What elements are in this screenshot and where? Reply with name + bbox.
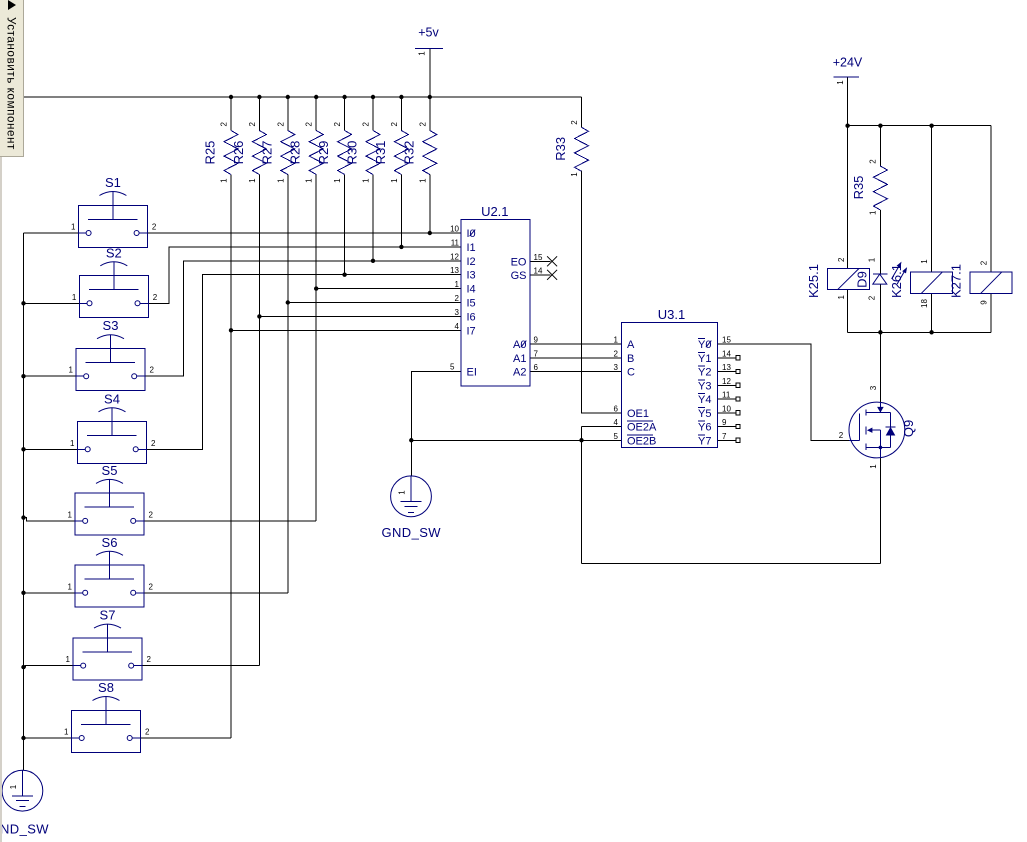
svg-text:1: 1 [276, 178, 285, 183]
switch S8 [72, 697, 141, 753]
svg-text:GND_SW: GND_SW [0, 822, 49, 837]
junction I6/R26 [257, 314, 261, 318]
svg-text:GND_SW: GND_SW [382, 525, 442, 540]
switch S3 [76, 335, 145, 391]
svg-text:R35: R35 [851, 176, 866, 200]
wire Q9 drain [879, 332, 881, 402]
ground GND_SW [391, 476, 432, 517]
wire +24V rail [848, 125, 991, 127]
junction rail/R35 [878, 124, 882, 128]
tab text [5, 17, 18, 150]
wire Y3 stub [717, 384, 735, 386]
svg-text:15: 15 [534, 253, 543, 262]
wire I7 [231, 329, 461, 331]
svg-text:1: 1 [868, 257, 877, 262]
wire R32 column [429, 175, 431, 234]
wire Y1 stub [717, 357, 735, 359]
wire Y6 stub [717, 426, 735, 428]
resistor R25 [224, 131, 238, 175]
svg-text:S5: S5 [102, 463, 118, 478]
svg-text:GS: GS [511, 270, 527, 282]
svg-text:Y0: Y0 [698, 339, 711, 351]
svg-text:2: 2 [362, 122, 371, 127]
svg-text:+5v: +5v [418, 26, 439, 40]
junction rail/R26 [257, 95, 261, 99]
wire R27 top stub [287, 97, 289, 131]
svg-text:12: 12 [450, 252, 459, 261]
svg-text:1: 1 [390, 178, 399, 183]
wire OE2A [582, 426, 622, 428]
svg-text:9: 9 [722, 418, 727, 427]
switch S2 [79, 262, 148, 318]
wire S8 pin2 [141, 737, 232, 739]
wire I6 [259, 315, 460, 317]
svg-text:7: 7 [534, 349, 539, 358]
svg-text:2: 2 [152, 223, 157, 232]
svg-text:14: 14 [534, 266, 543, 275]
svg-text:2: 2 [150, 366, 155, 375]
svg-text:S7: S7 [100, 608, 116, 623]
left canvas edge [0, 156, 2, 842]
svg-text:10: 10 [722, 404, 731, 413]
svg-text:OE1: OE1 [627, 408, 649, 420]
svg-text:K27.1: K27.1 [949, 264, 964, 298]
svg-text:2: 2 [220, 122, 229, 127]
wire OE2B [582, 439, 622, 441]
junction rail/R25 [229, 95, 233, 99]
junction I5/R27 [286, 300, 290, 304]
svg-text:12: 12 [722, 377, 731, 386]
wire R33 top stub [581, 97, 583, 127]
svg-text:2: 2 [837, 257, 846, 262]
svg-text:11: 11 [451, 238, 460, 247]
junction I7/R25 [229, 328, 233, 332]
wire A2-C [530, 371, 621, 373]
svg-text:1: 1 [362, 178, 371, 183]
wire Y0-gate [717, 344, 849, 441]
svg-text:2: 2 [145, 728, 150, 737]
wire S6 pin2 [144, 592, 288, 594]
switch S6 [75, 551, 144, 607]
svg-text:Y6: Y6 [698, 422, 711, 434]
svg-text:K25.1: K25.1 [806, 264, 821, 298]
svg-text:1: 1 [418, 51, 427, 56]
junction I3/R29 [342, 273, 346, 277]
resistor R27 [281, 131, 295, 175]
wire K26.1 top [931, 126, 933, 273]
diode D9 (LED) [873, 262, 907, 285]
svg-text:1: 1 [68, 582, 73, 591]
wire R31 column [400, 175, 402, 247]
no-connect square Y2 [736, 369, 740, 373]
switch S1 [78, 192, 147, 248]
junction I0/R32 [428, 231, 432, 235]
switch S5 [75, 479, 144, 535]
wire R32 top stub [429, 97, 431, 131]
wire S6 pin1 [24, 592, 76, 594]
svg-text:1: 1 [69, 366, 74, 375]
wire R29 column [344, 175, 346, 275]
op-amp U2.1 body [461, 219, 530, 386]
svg-text:S4: S4 [104, 391, 120, 406]
junction rail/R28 [314, 95, 318, 99]
resistor R33 [575, 127, 589, 171]
wire R28 column [315, 175, 317, 521]
resistor R29 [338, 131, 352, 175]
svg-text:5: 5 [614, 432, 619, 441]
svg-text:C: C [627, 367, 635, 379]
wire OE2 vertical [581, 427, 583, 564]
svg-text:EI: EI [467, 367, 477, 379]
resistor R35 [873, 166, 887, 210]
wire S3 pin1 [24, 375, 77, 377]
wire S1 pin1 [24, 232, 79, 234]
svg-text:Y1: Y1 [698, 353, 711, 365]
svg-text:OE2A: OE2A [627, 422, 657, 434]
svg-text:13: 13 [450, 266, 459, 275]
wire +24V drop [847, 77, 849, 126]
switch S7 [73, 624, 142, 680]
svg-text:1: 1 [66, 655, 71, 664]
slash of zero in I0 [470, 230, 476, 237]
wire +5v drop [429, 48, 431, 97]
wire S5 pin2 [144, 520, 316, 522]
svg-text:I7: I7 [467, 325, 476, 337]
wire S3-I2 [145, 261, 461, 376]
wire source return [582, 562, 881, 564]
op-amp U3.1 body [621, 323, 717, 448]
slash of zero in A0 [521, 341, 526, 348]
svg-text:1: 1 [398, 490, 407, 495]
svg-text:2: 2 [149, 510, 154, 519]
junction I2/R30 [371, 259, 375, 263]
wire S5 pin1 [24, 518, 76, 521]
junction rail/R31 [399, 95, 403, 99]
svg-text:R32: R32 [401, 141, 416, 165]
svg-text:OE2B: OE2B [627, 435, 656, 447]
wire R35 top stub [879, 126, 881, 166]
svg-text:7: 7 [722, 432, 727, 441]
svg-text:Y3: Y3 [698, 380, 711, 392]
svg-text:1: 1 [71, 223, 76, 232]
junction bottom/D9-drain [878, 330, 882, 334]
svg-text:R27: R27 [259, 141, 274, 165]
wire R29 top stub [344, 97, 346, 131]
no-connect square Y5 [736, 411, 740, 415]
no-connect square Y4 [736, 397, 740, 401]
wire R26 column [258, 175, 260, 666]
junction bus/S5 [21, 515, 25, 519]
svg-text:2: 2 [455, 294, 460, 303]
no-connect square Y3 [736, 383, 740, 387]
relay coil K25.1 [827, 268, 869, 289]
svg-text:2: 2 [333, 122, 342, 127]
junction rail/K25 [845, 124, 849, 128]
svg-text:D9: D9 [855, 271, 870, 288]
svg-text:R29: R29 [316, 141, 331, 165]
svg-text:1: 1 [836, 80, 845, 85]
svg-text:2: 2 [839, 431, 844, 440]
wire R33-OE1 [582, 170, 622, 412]
wire S7 pin1 [24, 666, 74, 668]
wire R25 top stub [230, 97, 232, 131]
svg-text:Q9: Q9 [901, 420, 916, 437]
svg-text:2: 2 [390, 122, 399, 127]
svg-text:A0: A0 [513, 339, 526, 351]
power +24V [833, 76, 859, 78]
wire R30 column [372, 175, 374, 261]
junction bus/S4 [21, 447, 25, 451]
svg-text:1: 1 [570, 172, 579, 177]
svg-text:Y5: Y5 [698, 408, 711, 420]
wire Y7 stub [717, 439, 735, 441]
junction rail/R32 [428, 95, 432, 99]
tab arrow icon [8, 0, 16, 10]
svg-text:6: 6 [534, 363, 539, 372]
svg-text:1: 1 [248, 178, 257, 183]
wire K27.1 top [990, 126, 992, 273]
wire R27 column [287, 175, 289, 593]
svg-text:2: 2 [151, 439, 156, 448]
no-connect square Y6 [736, 424, 740, 428]
svg-text:S8: S8 [98, 680, 114, 695]
svg-text:2: 2 [153, 293, 158, 302]
wire left ground bus [23, 233, 25, 770]
resistor R32 [423, 131, 437, 175]
junction I4/R28 [314, 286, 318, 290]
wire EI [411, 372, 461, 441]
svg-text:S2: S2 [106, 245, 122, 260]
junction rail/R27 [286, 95, 290, 99]
svg-text:1: 1 [837, 295, 846, 300]
junction bus/S7 [21, 665, 25, 669]
junction OE2 [579, 438, 583, 442]
svg-text:R33: R33 [553, 137, 568, 161]
svg-text:9: 9 [979, 300, 988, 305]
wire GND link [411, 439, 581, 441]
svg-text:1: 1 [418, 178, 427, 183]
wire R25 column [230, 175, 232, 739]
svg-text:2: 2 [868, 295, 877, 300]
svg-text:1: 1 [68, 510, 73, 519]
svg-text:Y2: Y2 [698, 367, 711, 379]
junction I1/R31 [399, 245, 403, 249]
svg-text:1: 1 [70, 439, 75, 448]
wire I4 [316, 288, 461, 290]
svg-text:Y7: Y7 [698, 435, 711, 447]
svg-text:11: 11 [722, 391, 731, 400]
svg-text:R26: R26 [231, 141, 246, 165]
svg-text:Y4: Y4 [698, 394, 711, 406]
svg-text:2: 2 [418, 122, 427, 127]
relay coil K26.1 [911, 272, 953, 294]
wire R28 top stub [315, 97, 317, 131]
svg-text:6: 6 [614, 404, 619, 413]
wire EO stub [530, 260, 550, 262]
relay coil K27.1 [970, 272, 1012, 294]
wire K25.1 bottom [847, 289, 849, 332]
svg-text:15: 15 [722, 336, 731, 345]
switch S4 [78, 408, 147, 464]
svg-text:S3: S3 [103, 318, 119, 333]
svg-text:U3.1: U3.1 [658, 307, 685, 322]
svg-text:I5: I5 [467, 298, 476, 310]
svg-text:9: 9 [534, 336, 539, 345]
svg-text:I6: I6 [467, 311, 476, 323]
junction bus/S8 [21, 736, 25, 740]
svg-text:1: 1 [455, 280, 460, 289]
junction GND/EI [409, 438, 413, 442]
power +5v [415, 47, 443, 49]
svg-text:1: 1 [220, 178, 229, 183]
svg-text:2: 2 [305, 122, 314, 127]
no-connect X on EO [547, 256, 557, 266]
wire S4 pin1 [24, 448, 78, 450]
svg-text:I4: I4 [467, 284, 476, 296]
svg-text:2: 2 [276, 122, 285, 127]
wire GND drop [410, 440, 412, 476]
svg-text:S6: S6 [102, 535, 118, 550]
resistor R31 [394, 131, 408, 175]
svg-text:13: 13 [722, 363, 731, 372]
svg-text:2: 2 [868, 159, 877, 164]
svg-text:4: 4 [614, 418, 619, 427]
svg-text:1: 1 [64, 728, 69, 737]
svg-text:2: 2 [147, 655, 152, 664]
junction rail/K26 [929, 124, 933, 128]
svg-text:1: 1 [333, 178, 342, 183]
svg-text:2: 2 [570, 120, 579, 125]
svg-text:1: 1 [72, 293, 77, 302]
svg-text:3: 3 [455, 308, 460, 317]
junction rail/R29 [342, 95, 346, 99]
svg-text:U2.1: U2.1 [481, 204, 508, 219]
resistor R28 [309, 131, 323, 175]
wire Y4 stub [717, 398, 735, 400]
ground GND_SW bottom [2, 770, 43, 811]
svg-text:2: 2 [149, 582, 154, 591]
wire GS stub [530, 274, 550, 276]
svg-text:14: 14 [722, 349, 731, 358]
junction bus/S2 [21, 301, 25, 305]
svg-text:S1: S1 [105, 175, 121, 190]
UI sidebar tab [0, 0, 24, 157]
wire I5 [288, 302, 461, 304]
svg-text:R30: R30 [345, 141, 360, 165]
svg-text:I2: I2 [467, 256, 476, 268]
junction bus/S3 [21, 374, 25, 378]
wire R35-D9 [879, 210, 881, 274]
svg-text:10: 10 [450, 225, 459, 234]
junction bus/S6 [21, 591, 25, 595]
svg-text:1: 1 [868, 210, 877, 215]
no-connect square Y7 [736, 438, 740, 442]
wire K27.1 bottom [990, 294, 992, 333]
svg-text:2: 2 [248, 122, 257, 127]
wire R30 top stub [372, 97, 374, 131]
svg-text:3: 3 [869, 385, 878, 390]
wire coil bottom rail [848, 331, 991, 333]
wire R31 top stub [400, 97, 402, 131]
junction bottom/K26 [929, 330, 933, 334]
svg-text:A1: A1 [513, 353, 526, 365]
wire A1-B [530, 357, 621, 359]
wire S2-I1 [148, 247, 461, 303]
svg-text:1: 1 [9, 784, 18, 789]
wire A0-A [530, 343, 621, 345]
junction rail/R30 [371, 95, 375, 99]
svg-text:EO: EO [511, 256, 527, 268]
svg-text:K26.1: K26.1 [889, 264, 904, 298]
no-connect X on GS [547, 270, 557, 280]
no-connect square Y1 [736, 356, 740, 360]
wire +5v rail [24, 96, 582, 98]
svg-text:I3: I3 [467, 270, 476, 282]
svg-text:4: 4 [455, 322, 460, 331]
wire Y2 stub [717, 371, 735, 373]
wire Q9 source [880, 458, 882, 563]
svg-text:18: 18 [920, 299, 929, 308]
resistor R30 [366, 131, 380, 175]
svg-text:2: 2 [979, 260, 988, 265]
svg-text:5: 5 [450, 363, 455, 372]
svg-text:R28: R28 [288, 141, 303, 165]
wire Y5 stub [717, 412, 735, 414]
svg-text:+24V: +24V [833, 56, 863, 70]
svg-text:R31: R31 [373, 141, 388, 165]
resistor R26 [252, 131, 266, 175]
svg-text:1: 1 [869, 464, 878, 469]
svg-text:2: 2 [614, 349, 619, 358]
svg-text:A2: A2 [513, 367, 526, 379]
wire S8 pin1 [24, 737, 72, 739]
svg-text:1: 1 [920, 259, 929, 264]
svg-text:R25: R25 [203, 141, 218, 165]
svg-text:I1: I1 [467, 242, 476, 254]
svg-text:3: 3 [614, 363, 619, 372]
wire S1-I0 [147, 232, 460, 234]
wire S7 pin2 [142, 665, 259, 667]
wire D9 bottom [879, 284, 881, 332]
svg-text:1: 1 [305, 178, 314, 183]
wire S2 pin1 [24, 302, 80, 304]
svg-text:A: A [627, 339, 635, 351]
svg-text:1: 1 [614, 336, 619, 345]
transistor Q9 (n-MOSFET) [849, 402, 905, 458]
slash of zero in Y0 [706, 341, 711, 348]
wire K26.1 bottom [931, 294, 933, 333]
wire K25.1 top [847, 126, 849, 269]
wire R26 top stub [258, 97, 260, 131]
svg-text:B: B [627, 353, 634, 365]
wire S4-I3 [147, 275, 461, 450]
